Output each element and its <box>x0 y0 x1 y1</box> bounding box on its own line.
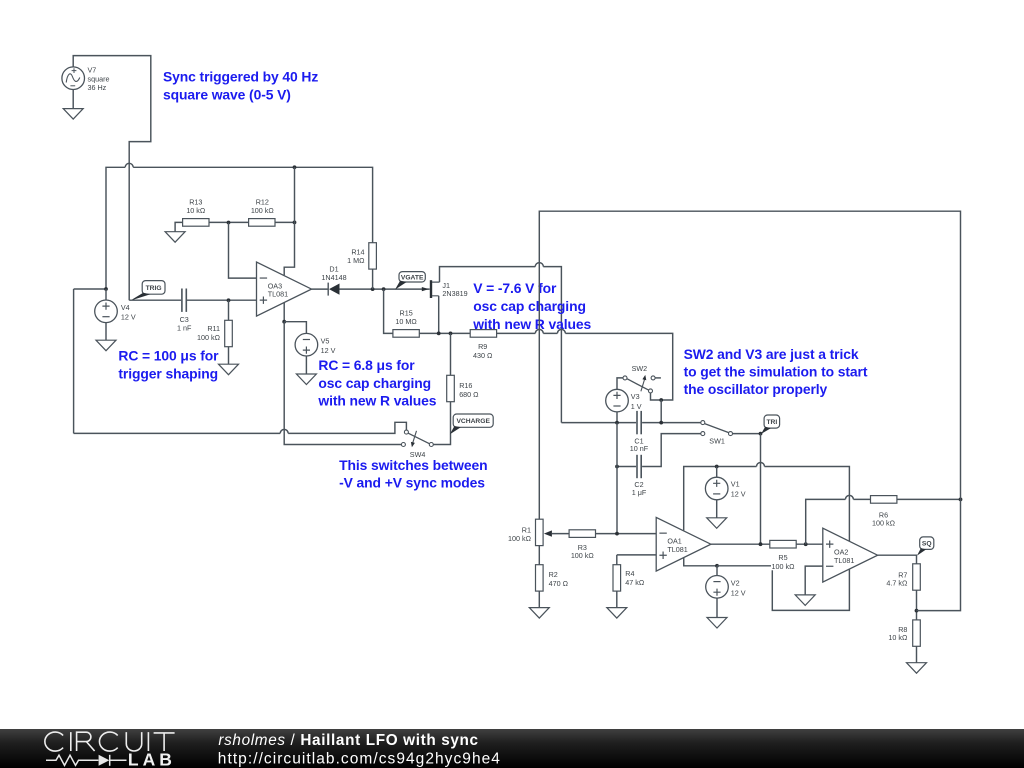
node C3 / R11 / OA3+ <box>227 298 231 302</box>
label V3 value <box>631 392 642 411</box>
node R14 bottom <box>371 287 375 291</box>
label V1 value <box>731 480 746 499</box>
svg-text:square wave (0-5 V): square wave (0-5 V) <box>163 87 291 103</box>
svg-text:V2: V2 <box>731 579 740 588</box>
svg-text:100 kΩ: 100 kΩ <box>571 551 595 560</box>
wire R13-R12 <box>209 221 249 223</box>
svg-text:4.7 kΩ: 4.7 kΩ <box>886 579 908 588</box>
wire R13 left to ground <box>175 222 183 231</box>
node OA3 V- / V5 <box>282 320 286 324</box>
node R7/R8/feedback rail <box>915 609 919 613</box>
svg-text:trigger shaping: trigger shaping <box>118 366 218 382</box>
label R15 value <box>395 308 417 326</box>
svg-text:12 V: 12 V <box>731 588 746 597</box>
svg-text:430 Ω: 430 Ω <box>473 351 493 360</box>
bar url text <box>218 750 501 767</box>
label R13 value <box>186 198 206 215</box>
svg-text:RC = 100 μs for: RC = 100 μs for <box>118 348 219 364</box>
node R16 branch <box>449 332 453 336</box>
node C2 / x617 vertical <box>615 465 619 469</box>
wire V1 to ground <box>716 500 718 518</box>
svg-text:V7: V7 <box>88 65 97 74</box>
svg-text:10 kΩ: 10 kΩ <box>186 206 206 215</box>
resistor R13 <box>183 219 209 227</box>
ground below R2 <box>529 608 549 619</box>
potentiometer R1 <box>536 519 552 545</box>
wire SW1 lower to C2 <box>642 434 701 467</box>
node R13/R12/OA3- branch <box>227 221 231 225</box>
ground at OA2- input <box>795 595 815 606</box>
ground at R13 <box>165 232 185 243</box>
node R12 / V+ vertical <box>293 221 297 225</box>
node R5 / R6 branch <box>804 542 808 546</box>
svg-text:to get the simulation to start: to get the simulation to start <box>684 363 868 379</box>
flag VGATE <box>395 272 425 290</box>
wire R11 to ground <box>228 347 230 365</box>
wire left vertical to SW4 line <box>73 289 75 433</box>
op-amp OA1 TL081 <box>656 517 711 571</box>
svg-text:V5: V5 <box>321 336 330 345</box>
label R4 value <box>625 569 645 587</box>
resistor R4 <box>613 565 621 591</box>
wire V2 to ground <box>716 598 718 617</box>
svg-text:1 V: 1 V <box>631 402 642 411</box>
wire C3 to OA3+ input <box>186 299 256 301</box>
bottom bar background <box>0 729 1024 768</box>
label R11 value <box>197 324 221 342</box>
label R7 value <box>886 570 908 587</box>
CircuitLab logo CIRCUIT letters <box>45 732 175 751</box>
voltage source V5 12 V (negative up) <box>295 333 318 356</box>
node OA1 out / TRI branch <box>759 542 763 546</box>
wire J1 drain up and right (hop at 539) <box>440 263 562 423</box>
wire C1 line left <box>561 422 636 424</box>
voltage source V4 12 V <box>95 300 118 323</box>
resistor R3 <box>569 530 595 538</box>
svg-text:10 kΩ: 10 kΩ <box>888 633 908 642</box>
label R9 value <box>473 342 493 360</box>
svg-text:TL081: TL081 <box>268 290 288 299</box>
svg-text:V3: V3 <box>631 392 640 401</box>
wire OA3 output to D1 <box>312 288 328 290</box>
svg-text:TRIG: TRIG <box>146 285 162 292</box>
logo resistor-diode squiggle <box>46 755 127 766</box>
svg-text:SW2: SW2 <box>632 364 648 373</box>
wire R15 branch down <box>384 289 393 333</box>
svg-text:100 kΩ: 100 kΩ <box>872 519 896 528</box>
blue note switch modes <box>339 457 487 491</box>
blue note V -7.6 <box>472 280 591 332</box>
resistor R9 <box>470 330 496 338</box>
svg-text:100 kΩ: 100 kΩ <box>772 562 796 571</box>
wire integrator node vertical <box>616 423 618 534</box>
wire C2 left <box>617 466 636 468</box>
wire -12V line to OA2 V- <box>717 566 849 611</box>
flag TRIG <box>130 281 165 301</box>
ground below V1 <box>707 518 727 529</box>
wire to OA3- input <box>229 223 257 279</box>
svg-text:rsholmes / Haillant LFO with s: rsholmes / Haillant LFO with sync <box>218 732 478 749</box>
svg-text:100 kΩ: 100 kΩ <box>197 333 221 342</box>
node R15 branch <box>382 287 386 291</box>
ground below V5 <box>296 374 316 385</box>
CircuitLab logo LAB text <box>128 749 176 768</box>
svg-text:http://circuitlab.com/cs94g2hy: http://circuitlab.com/cs94g2hyc9he4 <box>218 750 501 767</box>
wire R2 to ground <box>538 591 540 608</box>
svg-text:12 V: 12 V <box>731 489 746 498</box>
wire to V5 top <box>284 322 306 334</box>
resistor R6 <box>871 496 897 504</box>
wire V1 top lead <box>716 467 718 478</box>
label J1 value <box>442 281 467 298</box>
op-amp OA2 TL081 <box>823 528 878 582</box>
wire OA2 output to R7 <box>878 555 917 564</box>
label SW1 <box>709 437 725 446</box>
svg-text:R11: R11 <box>207 324 220 333</box>
wire R7 to R8 <box>916 590 918 620</box>
label R16 value <box>459 381 479 399</box>
resistor R7 <box>913 564 921 590</box>
svg-text:VCHARGE: VCHARGE <box>456 418 490 425</box>
resistor R11 <box>225 320 233 346</box>
wire R1 to R2 <box>538 546 540 565</box>
resistor R8 <box>913 620 921 646</box>
wire R14 bottom lead <box>372 269 374 289</box>
op-amp OA3 TL081 <box>257 262 312 316</box>
wire V7+ to TRIG node (via hop) <box>73 56 151 301</box>
wire R9 right (hops at 539,561) <box>497 329 673 400</box>
svg-text:470 Ω: 470 Ω <box>549 579 569 588</box>
wire V4+ node horizontal <box>74 288 106 290</box>
svg-text:LAB: LAB <box>128 749 176 768</box>
resistor R15 <box>393 330 419 338</box>
label R8 value <box>888 625 908 642</box>
ground below R11 <box>219 364 239 375</box>
capacitor C1 <box>637 411 641 434</box>
wire R4 top lead <box>616 555 618 565</box>
svg-text:V1: V1 <box>731 480 740 489</box>
svg-text:R9: R9 <box>478 342 487 351</box>
svg-text:R4: R4 <box>625 569 634 578</box>
wire R3 to OA1- input <box>596 533 657 535</box>
wire big feedback loop to R1 top <box>539 211 960 610</box>
svg-text:R16: R16 <box>459 381 472 390</box>
switch SW4 (SPDT) <box>401 430 433 447</box>
node R3 / integrator cap node <box>615 532 619 536</box>
label R12 value <box>251 198 275 215</box>
svg-text:1 MΩ: 1 MΩ <box>347 256 365 265</box>
svg-text:RC = 6.8 μs for: RC = 6.8 μs for <box>318 357 415 373</box>
node SW2 net / C1 branch <box>659 398 663 402</box>
resistor R16 <box>447 375 455 401</box>
svg-text:This switches between: This switches between <box>339 457 487 473</box>
wire V4 net to SW4 upper throw (hop at 284) <box>74 422 407 433</box>
wire V4- to ground <box>105 323 107 341</box>
svg-text:TL081: TL081 <box>834 556 854 565</box>
wire V5 to ground <box>305 356 307 374</box>
label C2 value <box>632 480 647 497</box>
blue note RC 100us <box>118 348 219 382</box>
svg-text:100 kΩ: 100 kΩ <box>251 206 275 215</box>
resistor R5 <box>770 540 796 548</box>
svg-text:TL081: TL081 <box>667 545 687 554</box>
node rail / R12 branch <box>293 165 297 169</box>
node V4 / rail / left wire <box>104 287 108 291</box>
label V5 value <box>321 336 336 355</box>
wire -12V node to SW4 lower throw <box>284 322 401 445</box>
ground below V2 <box>707 618 727 629</box>
wire C1 to SW1 upper <box>642 422 701 424</box>
bar title text <box>218 732 478 749</box>
blue note RC 6.8us <box>317 357 436 409</box>
svg-text:680 Ω: 680 Ω <box>459 390 479 399</box>
svg-text:V = -7.6 V for: V = -7.6 V for <box>473 280 557 296</box>
resistor R12 <box>249 219 275 227</box>
wire OA1+ input <box>617 554 656 556</box>
wire R16 top lead <box>450 333 452 375</box>
svg-text:SQ: SQ <box>922 541 932 548</box>
svg-text:with new R values: with new R values <box>472 316 591 332</box>
label C3 value <box>177 315 192 333</box>
svg-text:TRI: TRI <box>766 419 777 426</box>
wire rail to OA3 V+ pin <box>284 167 294 275</box>
wire R16 to SW4 common <box>433 402 450 445</box>
node R6 / right rail <box>959 498 963 502</box>
svg-text:12 V: 12 V <box>121 313 136 322</box>
svg-text:10 nF: 10 nF <box>630 444 649 453</box>
voltage source V7 (square 36 Hz) <box>62 67 85 90</box>
wire R8 to ground <box>916 646 918 662</box>
wire R6 feedback branch (hop at 849) <box>806 495 871 544</box>
wire R11 top lead <box>228 300 230 320</box>
label R3 value <box>571 543 595 560</box>
node OA1 V- / V2 <box>715 564 719 568</box>
svg-text:osc cap charging: osc cap charging <box>318 375 431 391</box>
blue note sync trigger <box>163 69 318 103</box>
diode D1 1N4148 <box>328 283 339 296</box>
wire C1 branch <box>660 400 662 423</box>
wire V3 bottom <box>616 412 618 423</box>
node C1 line / branch <box>659 421 663 425</box>
wire R5 to OA2+ input <box>796 543 823 545</box>
svg-text:SW1: SW1 <box>709 437 725 446</box>
resistor R2 <box>536 565 544 591</box>
wire J1 source down <box>438 296 440 334</box>
svg-text:2N3819: 2N3819 <box>442 289 467 298</box>
svg-text:1 μF: 1 μF <box>632 488 647 497</box>
ground below R4 <box>607 608 627 619</box>
svg-text:Sync triggered by 40 Hz: Sync triggered by 40 Hz <box>163 69 318 85</box>
wire V2 top lead <box>716 566 718 576</box>
node V1 top <box>715 465 719 469</box>
flag SQ <box>917 537 934 556</box>
svg-text:36 Hz: 36 Hz <box>88 83 107 92</box>
wire OA3 V- pin down <box>283 303 285 322</box>
svg-text:VGATE: VGATE <box>401 274 424 281</box>
label R1 value <box>508 526 532 543</box>
label R6 value <box>872 511 896 528</box>
svg-text:osc cap charging: osc cap charging <box>473 298 586 314</box>
svg-text:V4: V4 <box>121 303 130 312</box>
label R2 value <box>549 570 569 588</box>
transistor J1 2N3819 (JFET) <box>422 280 440 298</box>
label R5 value <box>772 553 796 571</box>
wire +12V rail <box>106 163 373 289</box>
ground below R8 <box>907 663 927 674</box>
switch SW2 (SPDT) <box>623 375 661 393</box>
node J1 source / R9 line <box>437 332 441 336</box>
wire V7- to ground <box>72 90 74 109</box>
blue note SW2 V3 trick <box>684 346 868 397</box>
resistor R14 <box>369 243 377 269</box>
label SW2 <box>632 364 648 373</box>
capacitor C2 <box>637 455 641 478</box>
wire OA1 output <box>711 543 770 545</box>
label SW4 <box>410 450 426 459</box>
wire R1 wiper to R3 <box>552 533 569 535</box>
svg-text:1 nF: 1 nF <box>177 324 192 333</box>
label V7 value <box>88 65 110 92</box>
voltage source V1 12 V <box>705 477 728 500</box>
label V4 value <box>121 303 136 322</box>
wire TRI node down to OA1 output <box>760 434 762 545</box>
flag TRI <box>761 415 780 434</box>
flag VCHARGE <box>450 414 493 434</box>
svg-text:the oscillator properly: the oscillator properly <box>684 381 828 397</box>
wire D1 to J1 gate <box>340 288 430 290</box>
svg-text:SW2 and V3 are just a trick: SW2 and V3 are just a trick <box>684 346 859 362</box>
label R14 value <box>347 248 365 266</box>
switch SW1 (SPDT) <box>701 421 733 436</box>
wire OA1 V- down <box>684 558 717 566</box>
svg-text:1N4148: 1N4148 <box>321 273 346 282</box>
wire R4 to ground <box>616 591 618 608</box>
svg-text:-V and +V sync modes: -V and +V sync modes <box>339 475 485 491</box>
svg-text:R5: R5 <box>778 553 787 562</box>
wire V+ supply line (hop at 760) <box>684 463 850 542</box>
node V3 / C1 line <box>615 421 619 425</box>
svg-text:10 MΩ: 10 MΩ <box>395 317 417 326</box>
ground below V4 <box>96 340 116 351</box>
label V2 value <box>731 579 746 598</box>
wire R6 right to rail <box>897 498 961 500</box>
ground below V7 <box>63 109 83 120</box>
svg-text:with new R values: with new R values <box>317 393 436 409</box>
voltage source V3 1 V <box>606 389 629 412</box>
wire V4 top lead <box>105 289 107 300</box>
wire R15 to R9 <box>419 332 470 334</box>
label C1 value <box>630 437 649 453</box>
wire OA2- input to ground <box>805 566 823 595</box>
svg-text:12 V: 12 V <box>321 346 336 355</box>
label D1 value <box>321 265 346 282</box>
wire TRIG to C3 <box>129 299 181 301</box>
svg-text:100 kΩ: 100 kΩ <box>508 534 532 543</box>
capacitor C3 <box>182 289 186 312</box>
node SW1 / TRI / OA1 out <box>759 432 763 436</box>
wire SW2 common to V3 <box>617 378 623 390</box>
wire R12 right lead <box>275 221 295 223</box>
svg-text:47 kΩ: 47 kΩ <box>625 578 645 587</box>
voltage source V2 12 V (negative up) <box>706 576 729 599</box>
svg-text:R2: R2 <box>549 570 558 579</box>
wire SW1 common to TRI node <box>733 433 761 435</box>
